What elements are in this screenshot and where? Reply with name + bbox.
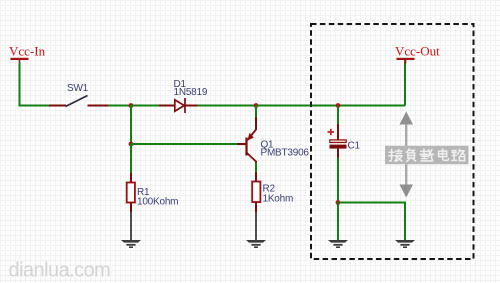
junction node D	[336, 200, 341, 205]
wire node B to node C and output corner	[256, 105, 405, 107]
wire collector to R2	[255, 163, 257, 173]
char jie	[389, 149, 402, 161]
resistor R1	[127, 173, 135, 212]
wire node B down to emitter	[255, 106, 257, 119]
svg-text:dianlua.com: dianlua.com	[9, 260, 111, 282]
wire node D down to ground	[337, 203, 339, 241]
svg-text:Vcc-Out: Vcc-Out	[395, 44, 440, 59]
junction node B	[254, 103, 259, 108]
transistor Q1	[237, 117, 256, 163]
wire diode to node B	[198, 105, 257, 107]
power port Vcc-In	[9, 44, 46, 64]
ground GND1	[121, 240, 141, 248]
load label box	[385, 146, 469, 164]
svg-text:1N5819: 1N5819	[174, 87, 208, 98]
ground GND2 stem	[255, 212, 257, 240]
svg-text:SW1: SW1	[67, 83, 89, 94]
wire base node down to R1	[130, 144, 132, 174]
junction node C	[336, 103, 341, 108]
wire node C down to capacitor	[337, 106, 339, 126]
wire output riser	[404, 60, 406, 106]
junction node A	[129, 103, 134, 108]
diode D1	[159, 98, 198, 113]
resistor R2	[252, 172, 260, 212]
svg-text:Vcc-In: Vcc-In	[9, 44, 46, 59]
ground GND3	[328, 240, 348, 248]
svg-text:C1: C1	[348, 141, 361, 152]
wire switch to node A	[108, 105, 131, 107]
wire node A down to base node	[130, 106, 132, 145]
svg-text:PMBT3906: PMBT3906	[261, 148, 310, 159]
svg-text:1Kohm: 1Kohm	[263, 194, 294, 205]
wire base node to transistor base	[131, 143, 237, 145]
ground GND4	[395, 240, 415, 248]
capacitor C1	[328, 124, 347, 158]
arrow up	[400, 112, 414, 147]
wire capacitor to node D	[337, 158, 339, 203]
wire from Vcc-In to switch	[20, 63, 50, 106]
ground GND2	[246, 240, 266, 248]
ground GND1 stem	[130, 212, 132, 240]
text 接负载电路	[389, 149, 465, 161]
char zai	[420, 149, 433, 161]
switch SW1	[49, 96, 108, 107]
svg-text:100Kohm: 100Kohm	[137, 197, 178, 208]
power port Vcc-Out	[395, 44, 440, 64]
wire node D to output ground corner	[338, 203, 405, 231]
wire output corner down to ground	[404, 229, 406, 240]
dashed load box	[311, 24, 474, 259]
junction base node	[129, 142, 134, 147]
arrow down	[400, 164, 414, 197]
wire node A to diode	[131, 105, 160, 107]
char dian	[439, 149, 449, 161]
char lu	[452, 149, 465, 160]
char fu	[406, 149, 415, 161]
